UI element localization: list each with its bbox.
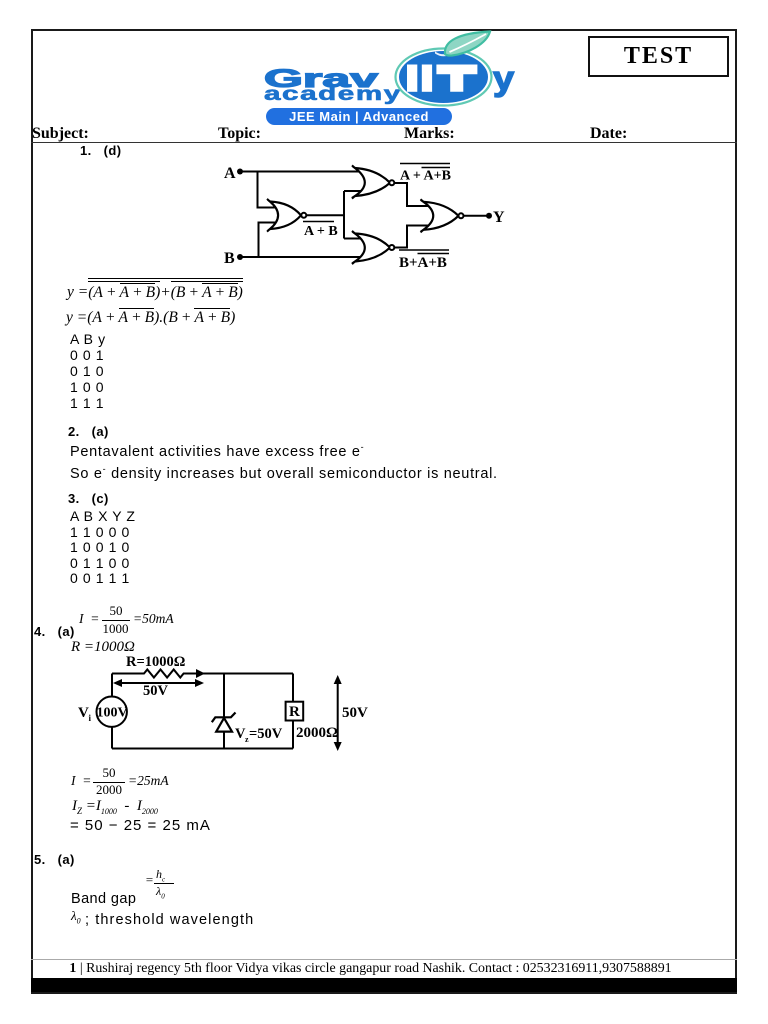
wire A to top gate xyxy=(240,171,364,173)
source circle xyxy=(97,697,127,727)
q2 heading xyxy=(68,424,109,439)
svg-text:R: R xyxy=(289,704,300,720)
zener circuit svg xyxy=(70,650,380,762)
apple notch top xyxy=(435,52,452,57)
eq line 1 xyxy=(67,278,243,302)
q1 heading xyxy=(80,143,121,158)
left vertical bottom xyxy=(111,727,113,749)
wire B branch up to gate1 xyxy=(259,223,285,258)
eq Iz xyxy=(72,798,158,816)
eq I=50/1000 xyxy=(79,611,99,627)
lambda threshold xyxy=(71,908,81,926)
svg-text:B+A+B: B+A+B xyxy=(399,255,447,271)
eq R=1000 xyxy=(71,639,135,656)
truth table 1 xyxy=(70,331,106,411)
nor gate G1 xyxy=(270,202,301,230)
footer text xyxy=(18,961,723,977)
zener branch wire xyxy=(223,674,225,718)
IIT white: T xyxy=(436,65,477,92)
footer black bar xyxy=(31,978,737,992)
wire split to gate3 upper input xyxy=(344,238,364,240)
logo: y xyxy=(493,62,514,96)
svg-text:V: V xyxy=(78,705,89,721)
left vertical top xyxy=(111,674,113,697)
current arrowhead on wire xyxy=(195,669,205,678)
overlines label bottom xyxy=(399,249,449,251)
apple body blue xyxy=(399,51,488,103)
logo: academy xyxy=(264,85,402,104)
leaf xyxy=(445,32,490,56)
IIT white: I xyxy=(407,65,417,92)
TEST box xyxy=(588,36,729,77)
node Y dot xyxy=(486,213,492,219)
apple body teal outline xyxy=(396,49,492,106)
q3 heading xyxy=(68,491,109,506)
q4 heading xyxy=(34,624,75,639)
eq line 2 xyxy=(66,308,235,327)
logo: Grav text xyxy=(264,67,378,92)
svg-text:50V: 50V xyxy=(143,683,169,699)
subject row labels xyxy=(32,125,89,143)
zener bar with bent ends xyxy=(212,713,236,723)
wire split to gate2 lower input xyxy=(344,190,364,192)
node A dot xyxy=(237,169,243,175)
svg-text:A + A+B: A + A+B xyxy=(400,169,451,184)
svg-text:50V: 50V xyxy=(342,705,368,721)
50V double arrow xyxy=(116,682,201,684)
truth table 2 xyxy=(70,509,136,587)
svg-text:A + B: A + B xyxy=(304,224,338,239)
eq I=50/2000 xyxy=(71,773,91,789)
overlines label top full xyxy=(400,163,450,165)
hc/lambda fraction xyxy=(145,872,154,888)
leaf vein xyxy=(450,34,487,52)
50V vertical double arrow xyxy=(337,678,339,748)
node B dot xyxy=(237,254,243,260)
header rule under subject row xyxy=(31,142,737,144)
wire split vertical xyxy=(343,191,345,239)
nor gate G4 final xyxy=(424,202,459,230)
eq = 50 - 25 xyxy=(70,817,211,834)
q2 text xyxy=(70,439,498,483)
wire gate1 out to split xyxy=(306,214,344,216)
wire gate4 out to Y xyxy=(464,215,488,217)
svg-text:i: i xyxy=(89,713,92,723)
band gap xyxy=(71,891,136,907)
right vertical + R box xyxy=(292,674,294,702)
svg-text:A: A xyxy=(224,165,236,182)
wire A branch down to gate1 xyxy=(258,172,285,208)
logo: apple + leaf + IIT xyxy=(380,28,530,118)
q5 heading xyxy=(34,852,75,867)
nor gate G2 top xyxy=(355,168,390,196)
overline label A+B xyxy=(303,221,334,223)
svg-text:R=1000Ω: R=1000Ω xyxy=(126,654,185,670)
logo: JEE pill xyxy=(266,108,452,125)
wire gate2 out down to gate4 xyxy=(394,183,438,206)
top wire with resistor zigzag xyxy=(112,670,293,678)
svg-text:Y: Y xyxy=(493,209,505,226)
wire gate3 out up to gate4 xyxy=(394,226,438,248)
wire B to bottom gate xyxy=(240,256,364,258)
svg-text:2000Ω: 2000Ω xyxy=(296,725,338,741)
logic circuit svg xyxy=(190,148,520,280)
zener triangle xyxy=(216,718,232,732)
svg-text:100V: 100V xyxy=(97,706,128,721)
bottom wire xyxy=(112,748,293,750)
IIT white: I xyxy=(422,65,432,92)
svg-text:B: B xyxy=(224,250,235,267)
nor gate G3 bottom xyxy=(355,234,390,262)
footer rule xyxy=(31,959,737,960)
svg-text:=50V: =50V xyxy=(249,726,283,742)
